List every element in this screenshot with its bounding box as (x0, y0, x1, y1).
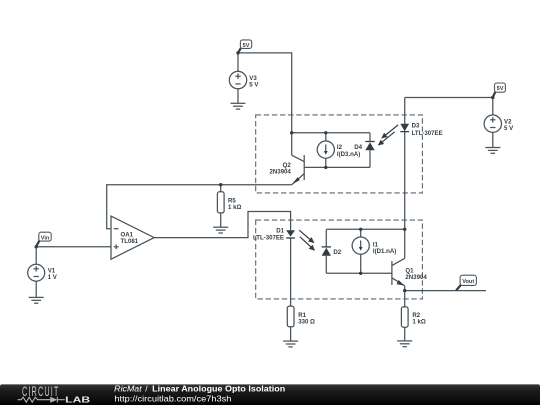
ground below R2 (397, 341, 412, 347)
wire I2 stubs (325, 133, 327, 141)
svg-text:D1: D1 (276, 228, 284, 235)
junction node I1 bottom (359, 272, 362, 275)
resistor R2 (401, 307, 408, 327)
junction node Q2 collector rail (290, 131, 293, 134)
voltage source V3 5V (229, 71, 246, 88)
svg-text:I(D3.nA): I(D3.nA) (337, 151, 360, 158)
svg-text:2N3904: 2N3904 (405, 274, 427, 281)
svg-text:http://circuitlab.com/ce7h3sh: http://circuitlab.com/ce7h3sh (114, 394, 231, 404)
wire V2 bottom (492, 132, 494, 147)
transistor Q1 2N3904 (392, 258, 405, 290)
svg-text:1 V: 1 V (48, 274, 58, 281)
voltage source V1 1V (28, 264, 45, 281)
ground below V2 (485, 148, 500, 154)
svg-text:D2: D2 (333, 249, 341, 256)
net flag 5V (V2) (493, 92, 495, 97)
svg-text:5V: 5V (497, 86, 504, 92)
svg-text:CIRCUIT: CIRCUIT (22, 385, 59, 400)
net flag 5V (V3) (238, 48, 241, 53)
svg-text:2N3904: 2N3904 (269, 168, 291, 175)
wire R2 bottom (404, 327, 406, 341)
wire V1 bottom (35, 281, 37, 297)
net flag Vout (456, 285, 461, 290)
ground below V3 (231, 103, 246, 109)
op-amp OA1 TL081 (111, 216, 154, 259)
current source I2 (317, 141, 334, 158)
wire I1 stubs (360, 229, 362, 237)
svg-text:5 V: 5 V (504, 125, 514, 132)
junction node Q1 collector rail (403, 228, 406, 231)
junction node V3 rail (236, 51, 239, 54)
svg-text:LTL-307EE: LTL-307EE (412, 130, 443, 137)
junction node I1 top (359, 228, 362, 231)
wire D4 branch (369, 133, 371, 142)
wire lower collector rail (326, 228, 404, 230)
current source I1 (352, 237, 369, 254)
wire V3 source (237, 53, 239, 72)
wire lower base rail (326, 272, 392, 274)
CircuitLab logo resistor-diode (18, 397, 65, 403)
wire upper collector rail (292, 132, 370, 134)
junction node Q1 emitter (403, 289, 406, 292)
svg-text:Vin: Vin (41, 235, 50, 241)
junction node V2 rail (491, 96, 494, 99)
wire R5 stub (220, 185, 222, 192)
light arrows D3 to D4 (379, 125, 399, 145)
wire V2 rail (405, 97, 493, 99)
resistor R1 (287, 306, 294, 327)
net flag Vin (36, 241, 39, 247)
svg-text:I(D1.nA): I(D1.nA) (373, 248, 396, 255)
ground below R5 (213, 227, 228, 233)
wire R1 bottom (290, 327, 292, 341)
wire 5V rail from V3 flag (238, 53, 292, 155)
junction node I2 top (324, 131, 327, 134)
ground below R1 (283, 341, 298, 347)
dashed box upper opto-coupler (256, 115, 423, 193)
svg-text:TL081: TL081 (121, 238, 139, 245)
Q2 emitter arrow (292, 177, 300, 184)
svg-text:5V: 5V (243, 43, 250, 49)
svg-text:Vout: Vout (462, 279, 474, 285)
wire op-amp output to D1 (154, 212, 290, 238)
svg-text:1 kΩ: 1 kΩ (412, 319, 425, 326)
photodiode D4 (365, 141, 374, 143)
photodiode D2 (322, 246, 331, 248)
wire upper base rail (304, 166, 370, 168)
LED D1 LTL-307EE (286, 230, 295, 236)
wire V1 top (35, 247, 37, 264)
svg-text:1 kΩ: 1 kΩ (228, 204, 241, 211)
svg-text:D4: D4 (354, 144, 362, 151)
transistor Q2 2N3904 (mirrored NPN) (292, 155, 305, 185)
svg-text:D3: D3 (412, 123, 420, 130)
junction node R5 top (219, 183, 222, 186)
svg-text:330 Ω: 330 Ω (298, 318, 315, 325)
wire V2 top (492, 98, 494, 116)
resistor R5 (217, 192, 224, 213)
dashed box lower opto-coupler (256, 220, 423, 299)
junction node Vin (35, 245, 38, 248)
svg-text:Linear Anologue Opto Isolation: Linear Anologue Opto Isolation (152, 384, 285, 394)
voltage source V2 5V (484, 115, 501, 132)
svg-text:RicMat: RicMat (114, 384, 142, 394)
light arrows D1 to D2 (299, 230, 314, 250)
ground below V1 (29, 297, 44, 303)
LED D3 LTL-307EE (400, 124, 409, 131)
junction node I2 bottom (324, 166, 327, 169)
svg-text:LAB: LAB (65, 394, 90, 404)
footer bar (0, 384, 540, 405)
wire Vout (405, 290, 486, 292)
svg-text:LTL-307EE: LTL-307EE (253, 235, 284, 242)
wire D3 column (404, 98, 406, 124)
wire Vin to op-amp plus (36, 246, 111, 248)
wire D1 to R1 (290, 238, 292, 306)
Q1 emitter arrow (397, 280, 405, 286)
wire D2 branch (325, 229, 327, 247)
wire feedback emitter to op-amp minus (107, 185, 292, 229)
svg-text:5 V: 5 V (249, 81, 259, 88)
wire R2 top (404, 291, 406, 307)
